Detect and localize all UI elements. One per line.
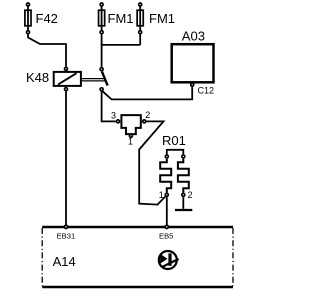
svg-text:3: 3 [111, 111, 116, 121]
svg-text:1: 1 [128, 137, 133, 147]
svg-text:1: 1 [159, 190, 164, 200]
svg-text:A03: A03 [182, 28, 205, 43]
svg-text:K48: K48 [26, 70, 49, 85]
svg-text:2: 2 [188, 190, 193, 200]
svg-text:FM1: FM1 [108, 11, 134, 26]
svg-text:2: 2 [145, 110, 150, 120]
svg-text:EB31: EB31 [57, 232, 76, 241]
svg-text:F42: F42 [36, 11, 58, 26]
svg-text:C12: C12 [198, 86, 215, 96]
svg-text:FM1: FM1 [149, 11, 175, 26]
svg-text:R01: R01 [162, 133, 186, 148]
svg-text:EB5: EB5 [159, 232, 173, 241]
svg-text:A14: A14 [53, 254, 76, 269]
